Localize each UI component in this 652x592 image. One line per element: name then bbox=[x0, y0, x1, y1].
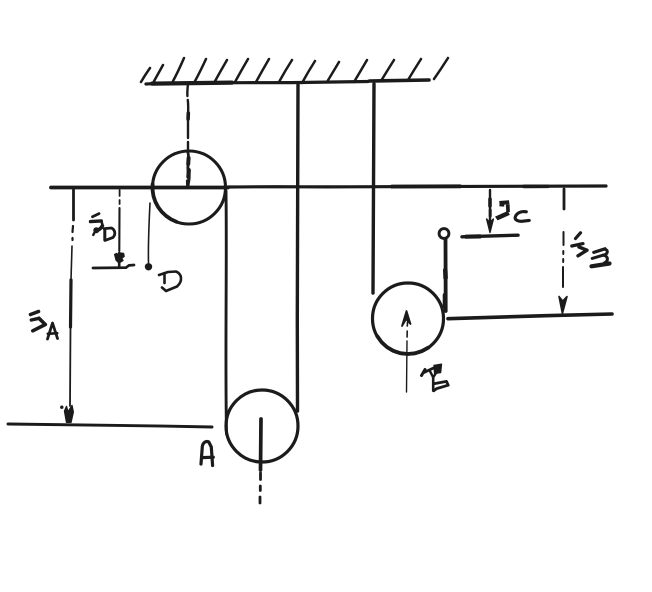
label D bbox=[159, 272, 181, 292]
label s_B bbox=[572, 233, 610, 266]
rope D to A (left side) bbox=[224, 191, 227, 434]
dimension arrow s_D bbox=[118, 190, 120, 251]
ground line s_A bbox=[8, 424, 212, 427]
ceiling hatching bbox=[141, 58, 448, 83]
pointer line pulley B bbox=[407, 322, 408, 392]
dimension arrow s_B bbox=[563, 189, 564, 287]
datum line bbox=[51, 186, 606, 188]
dimension arrow s_C bbox=[489, 190, 491, 221]
dimension arrow s_A bbox=[70, 190, 74, 406]
rope ceiling to A (right side) bbox=[296, 84, 300, 411]
ground line s_B bbox=[448, 314, 612, 319]
pointer arrowhead at B center bbox=[402, 311, 411, 326]
pulley A bbox=[226, 390, 298, 462]
cord end dot bbox=[145, 263, 152, 270]
reference line s_D bbox=[93, 265, 134, 268]
cord D left bbox=[148, 203, 150, 263]
reference line s_C bbox=[462, 235, 518, 237]
hanger wire to pulley D bbox=[187, 84, 189, 187]
label A bbox=[201, 442, 213, 466]
label B bbox=[422, 364, 449, 391]
label s_A bbox=[31, 312, 58, 340]
label s_D bbox=[91, 214, 115, 241]
label s_C bbox=[495, 200, 510, 220]
rope knob to B (right side) bbox=[444, 239, 448, 311]
ceiling bbox=[146, 80, 429, 84]
rope ceiling to B (left side) bbox=[373, 84, 374, 293]
load line pulley A bbox=[260, 419, 261, 503]
knob bbox=[439, 229, 449, 239]
pulley B bbox=[373, 283, 444, 354]
pulley D bbox=[153, 151, 226, 224]
